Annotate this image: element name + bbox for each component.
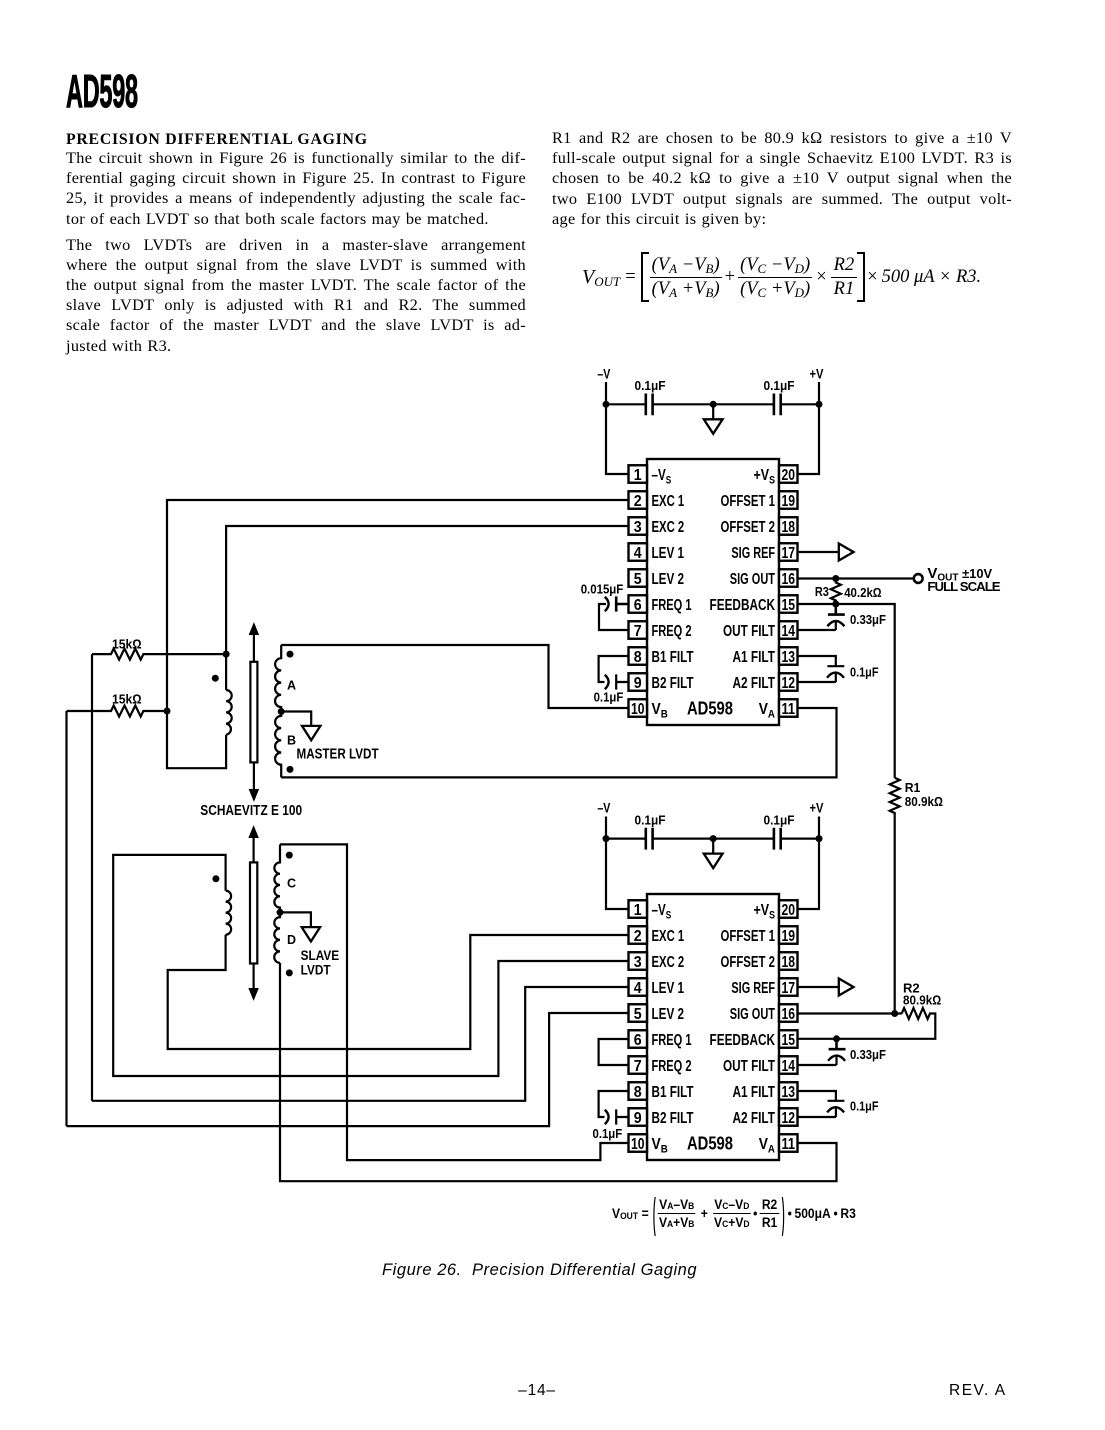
pin 14 name U2 — [723, 1058, 775, 1075]
label 15k upper value — [112, 637, 142, 652]
pin 5 box U2 — [629, 1004, 648, 1023]
label R1 — [905, 780, 921, 795]
wire: U2 pin 4 LEV1 bus to 15k upper — [92, 987, 628, 1101]
wire: slave core arrow down — [249, 964, 258, 1000]
label 0.1uF A-filter bottom — [850, 1099, 879, 1114]
left column paragraph 2 — [66, 235, 526, 356]
pin 17 name U1 — [731, 545, 775, 562]
svg-text:40.2kΩ: 40.2kΩ — [844, 585, 881, 600]
wire: top +V supply stem — [818, 382, 820, 404]
svg-text:0.1μF: 0.1μF — [850, 665, 879, 680]
wire: U1 pin 17 SIG REF output — [798, 551, 839, 553]
label 40.2k value — [844, 585, 881, 600]
node: master primary phase dot — [212, 675, 219, 682]
capacitor 0.1uF top-left bypass — [646, 394, 653, 416]
svg-text:R3: R3 — [815, 584, 829, 599]
node: slave secondary top phase dot — [286, 852, 293, 859]
svg-text:SLAVE: SLAVE — [301, 948, 340, 963]
pin 17 box U2 — [779, 978, 798, 997]
svg-text:9: 9 — [634, 675, 642, 692]
label 0.33uF top — [850, 612, 886, 627]
svg-text:0.1μF: 0.1μF — [764, 812, 795, 827]
svg-text:AD598: AD598 — [687, 1132, 733, 1153]
label 0.1uF A-filter top — [850, 665, 879, 680]
pin 13 name U1 — [733, 649, 776, 666]
svg-text:19: 19 — [781, 493, 795, 510]
label 0.1uF bottom-right — [764, 812, 795, 827]
node: junction 15k upper on EXC2 line — [223, 651, 230, 658]
pin 11 box U2 — [779, 1134, 798, 1153]
footer revision — [949, 1382, 1007, 1400]
svg-text:4: 4 — [634, 980, 642, 997]
label 15k lower value — [112, 692, 142, 707]
svg-text:15: 15 — [781, 1032, 795, 1049]
pin 1 name U2 — [652, 902, 672, 921]
wire: U2 pin 10 VB to slave secondary top — [280, 844, 628, 1160]
pin 20 name U1 — [754, 467, 776, 486]
pin 15 box U1 — [779, 595, 798, 614]
svg-text:AD598: AD598 — [687, 697, 733, 718]
svg-text:10: 10 — [631, 1136, 645, 1153]
pin 18 box U1 — [779, 517, 798, 536]
label -V bottom — [597, 800, 611, 816]
node: slave secondary bottom phase dot — [286, 969, 293, 976]
pin 8 name U2 — [652, 1084, 694, 1101]
pin 3 box U1 — [629, 517, 648, 536]
svg-text:0.33μF: 0.33μF — [850, 612, 886, 627]
label AD598 inside U1 — [687, 697, 733, 718]
svg-text:LEV 2: LEV 2 — [652, 571, 685, 588]
pin 9 name U2 — [652, 1110, 694, 1127]
node: master secondary bottom phase dot — [287, 766, 294, 773]
pin 13 name U2 — [733, 1084, 776, 1101]
label -V top — [597, 366, 611, 382]
label LVDT slave — [301, 963, 332, 978]
svg-text:11: 11 — [781, 701, 795, 718]
wire: -V rail to pin 1 of U2 — [606, 839, 628, 909]
svg-text:3: 3 — [634, 954, 642, 971]
pin 19 name U1 — [721, 493, 776, 510]
svg-text:A: A — [287, 678, 296, 692]
label R3 — [815, 584, 829, 599]
op-amp U1 AD598 body (top) — [647, 459, 779, 725]
wire: master core arrow up — [249, 624, 258, 662]
pin 10 box U2 — [629, 1134, 648, 1153]
wire: U2 FREQ1-FREQ2 loop — [599, 1039, 629, 1065]
svg-text:FEEDBACK: FEEDBACK — [710, 1032, 776, 1049]
svg-text:17: 17 — [781, 545, 795, 562]
pin 13 box U2 — [779, 1082, 798, 1101]
svg-text:5: 5 — [634, 571, 642, 588]
svg-text:0.1μF: 0.1μF — [594, 690, 624, 705]
pin 5 box U1 — [629, 569, 648, 588]
label VOUT +-10V — [927, 565, 992, 584]
capacitor 0.33uF on U1 OUT FILT — [798, 604, 845, 630]
svg-text:8: 8 — [634, 1084, 642, 1101]
U2 section wires — [67, 817, 936, 1182]
pin 8 name U1 — [652, 649, 694, 666]
core master LVDT — [250, 662, 257, 763]
pin 7 box U2 — [629, 1056, 648, 1075]
inductor slave secondary C — [274, 844, 280, 912]
arrow SIG REF top — [839, 544, 854, 561]
label 0.1uF B-filter bottom — [593, 1126, 623, 1141]
svg-text:0.1μF: 0.1μF — [635, 812, 666, 827]
svg-text:B: B — [287, 734, 296, 748]
node: slave secondary center tap — [277, 909, 284, 916]
pin 6 name U2 — [652, 1032, 692, 1049]
svg-text:A1 FILT: A1 FILT — [733, 649, 776, 666]
svg-text:20: 20 — [781, 467, 795, 484]
label R1 value — [905, 794, 943, 809]
svg-text:B1 FILT: B1 FILT — [652, 649, 694, 666]
pin 20 name U2 — [754, 902, 776, 921]
pin 12 name U1 — [733, 675, 776, 692]
label MASTER LVDT — [297, 746, 379, 762]
label 0.33uF bottom — [850, 1047, 886, 1062]
pin 11 name U2 — [759, 1136, 775, 1155]
svg-text:13: 13 — [781, 1084, 795, 1101]
svg-text:–V: –V — [597, 366, 611, 382]
wire: bottom +V supply stem — [818, 817, 820, 839]
capacitor 0.1uF bottom-right bypass — [774, 828, 781, 850]
left column heading — [66, 131, 368, 149]
svg-text:SCHAEVITZ E 100: SCHAEVITZ E 100 — [200, 803, 302, 819]
pin 15 box U2 — [779, 1030, 798, 1049]
node: master secondary top phase dot — [287, 651, 294, 658]
node: SIG OUT junction with R3 — [832, 575, 839, 582]
svg-text:3: 3 — [634, 519, 642, 536]
pin 7 name U2 — [652, 1058, 692, 1075]
svg-text:13: 13 — [781, 649, 795, 666]
pin 12 box U1 — [779, 673, 798, 692]
svg-text:0.1μF: 0.1μF — [593, 1126, 623, 1141]
svg-text:11: 11 — [781, 1136, 795, 1153]
pin 16 name U2 — [730, 1006, 775, 1023]
svg-text:FEEDBACK: FEEDBACK — [710, 597, 776, 614]
pin 12 name U2 — [733, 1110, 776, 1127]
wire: U2 pin 2 EXC1 to slave primary bottom — [168, 935, 629, 1049]
pin 19 box U2 — [779, 926, 798, 945]
ground bottom rail — [704, 839, 723, 869]
pin 2 name U1 — [652, 493, 685, 510]
svg-text:18: 18 — [781, 519, 795, 536]
pin 14 name U1 — [723, 623, 775, 640]
node: bottom rail +V junction — [816, 835, 823, 842]
svg-text:1: 1 — [634, 902, 642, 919]
wire: top supply rail — [606, 403, 819, 405]
inductor master primary — [226, 690, 232, 735]
resistor 15k upper — [92, 649, 225, 660]
ground slave secondary — [302, 927, 320, 941]
wire: bottom -V supply stem — [605, 817, 607, 839]
svg-text:4: 4 — [634, 545, 642, 562]
node: master secondary center tap — [278, 708, 285, 715]
pin 8 box U2 — [629, 1082, 648, 1101]
pin 16 box U1 — [779, 569, 798, 588]
svg-text:EXC 1: EXC 1 — [652, 928, 685, 945]
svg-text:16: 16 — [781, 1006, 795, 1023]
capacitor 0.33uF on U2 OUT FILT — [798, 1039, 846, 1065]
header AD598 logo text — [66, 64, 138, 118]
svg-text:OFFSET 1: OFFSET 1 — [721, 928, 776, 945]
node: top rail +V junction — [816, 401, 823, 408]
svg-text:OFFSET 2: OFFSET 2 — [721, 519, 776, 536]
node: FEEDBACK junction with R3/0.33uF — [832, 601, 839, 608]
capacitor 0.1uF bottom-left bypass — [646, 828, 653, 850]
svg-text:19: 19 — [781, 928, 795, 945]
svg-text:LEV 2: LEV 2 — [652, 1006, 685, 1023]
pin 9 name U1 — [652, 675, 694, 692]
pin 10 name U2 — [652, 1136, 668, 1155]
top equation (serif italic) — [582, 252, 981, 302]
inductor master secondary B — [275, 712, 281, 778]
pin 12 box U2 — [779, 1108, 798, 1127]
node: bottom rail center junction — [710, 835, 717, 842]
inductor slave primary — [226, 891, 232, 935]
capacitor 0.1uF between U1 B1FILT/B2FILT — [599, 656, 629, 690]
pin 3 name U1 — [652, 519, 685, 536]
terminal VOUT circle — [914, 574, 923, 583]
svg-text:A2 FILT: A2 FILT — [733, 675, 776, 692]
pin 1 name U1 — [652, 467, 672, 486]
svg-text:–V: –V — [597, 800, 611, 816]
pin 2 box U1 — [629, 491, 648, 510]
svg-text:SIG REF: SIG REF — [731, 980, 775, 997]
svg-text:A2 FILT: A2 FILT — [733, 1110, 776, 1127]
svg-text:LVDT: LVDT — [301, 963, 332, 978]
pin 14 box U1 — [779, 621, 798, 640]
svg-text:15kΩ: 15kΩ — [112, 637, 142, 652]
svg-text:OUT FILT: OUT FILT — [723, 623, 775, 640]
node: FEEDBACK junction U2 — [833, 1035, 840, 1042]
pin 10 box U1 — [629, 699, 648, 718]
wire: master core arrow down — [249, 762, 258, 800]
label B winding — [287, 734, 296, 748]
svg-text:80.9kΩ: 80.9kΩ — [903, 993, 941, 1008]
pin 17 box U1 — [779, 543, 798, 562]
wire: U1 pin 10 VB to master secondary top — [281, 645, 628, 708]
pin 4 name U2 — [652, 980, 685, 997]
ground top rail — [704, 404, 723, 434]
node: junction 15k lower on EXC1 line — [164, 708, 171, 715]
svg-text:6: 6 — [634, 1032, 642, 1049]
wire: 15k upper down to slave LEV1 bus — [91, 654, 93, 1101]
label 0.015uF — [581, 582, 624, 597]
pin 15 name U2 — [710, 1032, 776, 1049]
node: bottom rail -V junction — [603, 835, 610, 842]
wire: slave secondary bottom to U2 pin 11 VA — [280, 963, 837, 1181]
wire: slave center tap to ground — [280, 912, 311, 927]
capacitor 0.1uF top-right bypass — [774, 394, 781, 416]
svg-text:80.9kΩ: 80.9kΩ — [905, 794, 943, 809]
label A winding — [287, 678, 296, 692]
svg-text:0.1μF: 0.1μF — [850, 1099, 879, 1114]
wire: U1 pin 2 EXC1 to master primary bottom — [167, 500, 628, 768]
svg-text:7: 7 — [634, 623, 642, 640]
wire: U2 pin 3 EXC2 to slave primary top — [113, 855, 628, 1076]
wire: U2 pin 17 SIG REF output — [798, 986, 839, 988]
node: slave primary phase dot — [212, 875, 219, 882]
svg-text:EXC 2: EXC 2 — [652, 519, 685, 536]
svg-text:SIG OUT: SIG OUT — [730, 571, 775, 588]
label 0.1uF B-filter top — [594, 690, 624, 705]
pin 4 box U2 — [629, 978, 648, 997]
svg-text:15: 15 — [781, 597, 795, 614]
svg-text:14: 14 — [781, 623, 795, 640]
wire: master center tap to ground — [281, 712, 311, 726]
label C winding — [287, 877, 296, 891]
inductor slave secondary D — [274, 912, 280, 963]
svg-text:MASTER LVDT: MASTER LVDT — [297, 746, 379, 762]
wire: 15k lower down to slave LEV2 bus — [65, 711, 67, 1126]
pin 17 name U2 — [731, 980, 775, 997]
svg-text:5: 5 — [634, 1006, 642, 1023]
pin 11 name U1 — [759, 701, 775, 720]
svg-text:0.015μF: 0.015μF — [581, 582, 624, 597]
pin 2 box U2 — [629, 926, 648, 945]
capacitor 0.1uF between U2 B1FILT/B2FILT — [599, 1091, 629, 1125]
svg-text:R1: R1 — [905, 780, 921, 795]
svg-text:10: 10 — [631, 701, 645, 718]
svg-text:16: 16 — [781, 571, 795, 588]
pin 11 box U1 — [779, 699, 798, 718]
svg-text:C: C — [287, 877, 296, 891]
svg-text:D: D — [287, 933, 296, 947]
svg-text:0.33μF: 0.33μF — [850, 1047, 886, 1062]
svg-text:SIG REF: SIG REF — [731, 545, 775, 562]
capacitor 0.1uF between U2 A1FILT/A2FILT — [798, 1091, 845, 1117]
label D winding — [287, 933, 296, 947]
capacitor 0.1uF between U1 A1FILT/A2FILT — [798, 656, 845, 682]
wire: +V rail to pin 20 of U2 — [798, 839, 819, 909]
pin 6 box U1 — [629, 595, 648, 614]
pin 10 name U1 — [652, 701, 668, 720]
svg-text:2: 2 — [634, 493, 642, 510]
wire: top -V supply stem — [605, 382, 607, 404]
pin 3 name U2 — [652, 954, 685, 971]
svg-text:SIG OUT: SIG OUT — [730, 1006, 775, 1023]
node: top rail -V junction — [603, 401, 610, 408]
pin 3 box U2 — [629, 952, 648, 971]
label AD598 inside U2 — [687, 1132, 733, 1153]
footer page number — [487, 1382, 587, 1400]
svg-text:OUT FILT: OUT FILT — [723, 1058, 775, 1075]
pin 18 name U2 — [721, 954, 776, 971]
pin 5 name U1 — [652, 571, 685, 588]
label SCHAEVITZ E 100 — [200, 803, 302, 819]
svg-text:B2 FILT: B2 FILT — [652, 1110, 694, 1127]
label 0.1uF top-right — [764, 378, 795, 393]
wire: bottom supply rail — [606, 837, 819, 839]
svg-text:OFFSET 2: OFFSET 2 — [721, 954, 776, 971]
figure caption — [382, 1261, 697, 1280]
pin 2 name U2 — [652, 928, 685, 945]
pin 14 box U2 — [779, 1056, 798, 1075]
pin 7 name U1 — [652, 623, 692, 640]
pin 9 box U1 — [629, 673, 648, 692]
ground master secondary — [302, 726, 320, 740]
svg-text:12: 12 — [781, 675, 795, 692]
svg-text:EXC 2: EXC 2 — [652, 954, 685, 971]
wire: U1 pin 16 SIG OUT to VOUT terminal — [798, 577, 914, 579]
svg-text:0.1μF: 0.1μF — [764, 378, 795, 393]
pin 20 box U1 — [779, 465, 798, 484]
svg-text:17: 17 — [781, 980, 795, 997]
resistor 15k lower — [67, 706, 167, 717]
label 0.1uF top-left — [635, 378, 666, 393]
svg-text:OFFSET 1: OFFSET 1 — [721, 493, 776, 510]
svg-text:15kΩ: 15kΩ — [112, 692, 142, 707]
svg-text:18: 18 — [781, 954, 795, 971]
pin 4 box U1 — [629, 543, 648, 562]
pin 18 name U1 — [721, 519, 776, 536]
svg-text:FREQ 2: FREQ 2 — [652, 623, 692, 640]
svg-text:FULL SCALE: FULL SCALE — [927, 579, 1000, 594]
pin 15 name U1 — [710, 597, 776, 614]
label R2 value — [903, 993, 941, 1008]
pin 20 box U2 — [779, 900, 798, 919]
pin 9 box U2 — [629, 1108, 648, 1127]
svg-text:20: 20 — [781, 902, 795, 919]
svg-text:0.1μF: 0.1μF — [635, 378, 666, 393]
resistor R2 80.9k — [798, 1008, 936, 1039]
pin 6 box U2 — [629, 1030, 648, 1049]
capacitor 0.015uF between U1 FREQ1/FREQ2 — [599, 596, 628, 630]
label R2 — [903, 980, 920, 995]
svg-text:1: 1 — [634, 467, 642, 484]
svg-text:FREQ 2: FREQ 2 — [652, 1058, 692, 1075]
svg-text:FREQ 1: FREQ 1 — [652, 1032, 692, 1049]
op-amp U2 AD598 body (bottom) — [647, 894, 779, 1160]
label +V top — [810, 366, 824, 382]
label FULL SCALE — [927, 579, 1000, 594]
svg-text:12: 12 — [781, 1110, 795, 1127]
svg-text:6: 6 — [634, 597, 642, 614]
label 0.1uF bottom-left — [635, 812, 666, 827]
wire: +V rail to pin 20 of U1 — [798, 404, 819, 474]
wire: slave core arrow up — [249, 827, 258, 863]
svg-text:B2 FILT: B2 FILT — [652, 675, 694, 692]
pin 1 box U2 — [629, 900, 648, 919]
pin 8 box U1 — [629, 647, 648, 666]
svg-text:FREQ 1: FREQ 1 — [652, 597, 692, 614]
svg-text:2: 2 — [634, 928, 642, 945]
node: junction R1 R2 SIG OUT — [891, 1010, 898, 1017]
svg-text:A1 FILT: A1 FILT — [733, 1084, 776, 1101]
wire: master secondary bottom to U1 pin 11 VA — [281, 708, 836, 777]
pin 7 box U1 — [629, 621, 648, 640]
wire: U1 pin 3 EXC2 to master primary top — [226, 526, 628, 690]
arrow SIG REF bottom — [839, 979, 854, 996]
svg-text:+V: +V — [810, 800, 824, 816]
wire: -V rail to pin 1 of U1 — [606, 404, 628, 474]
pin 19 box U1 — [779, 491, 798, 510]
wire: U1 pin 15 FEEDBACK to R1 top — [798, 604, 895, 778]
wire: U2 pin 5 LEV2 bus to 15k lower — [67, 1013, 629, 1126]
pin 1 box U1 — [629, 465, 648, 484]
resistor R1 80.9k — [890, 778, 900, 1014]
pin 6 name U1 — [652, 597, 692, 614]
pin 4 name U1 — [652, 545, 685, 562]
pin 18 box U2 — [779, 952, 798, 971]
node: top rail center junction — [710, 401, 717, 408]
inductor master secondary A — [275, 645, 281, 712]
svg-text:B1 FILT: B1 FILT — [652, 1084, 694, 1101]
svg-text:9: 9 — [634, 1110, 642, 1127]
svg-text:LEV 1: LEV 1 — [652, 980, 685, 997]
label SLAVE — [301, 948, 340, 963]
